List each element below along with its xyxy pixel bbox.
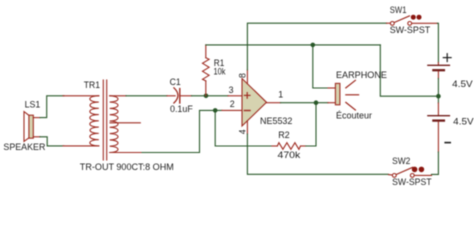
- svg-text:3: 3: [229, 85, 234, 95]
- svg-text:SW-SPST: SW-SPST: [392, 177, 432, 187]
- svg-text:470k: 470k: [278, 150, 301, 160]
- secondary top pin: [110, 95, 126, 97]
- svg-text:Écouteur: Écouteur: [336, 111, 372, 121]
- svg-text:SW-SPST: SW-SPST: [390, 25, 431, 35]
- core: [102, 80, 104, 160]
- svg-text:10k: 10k: [214, 67, 226, 77]
- primary bottom pin: [63, 145, 99, 147]
- wire battery bottom to SW2: [432, 152, 439, 174]
- wire pin2 down to R2: [215, 110, 272, 146]
- svg-text:SW2: SW2: [392, 156, 410, 166]
- svg-text:4.5V: 4.5V: [452, 79, 473, 89]
- primary winding: [90, 96, 99, 146]
- pin 4 stub: [246, 121, 248, 134]
- op-amp U1 NE5532: [222, 70, 281, 134]
- plus symbol: [244, 94, 250, 96]
- SW2 left pin stub: [389, 174, 393, 176]
- svg-text:TR1: TR1: [84, 80, 100, 90]
- battery BT1 4.5V: [428, 63, 450, 79]
- wire pin8 to top rail: [247, 23, 386, 70]
- switch SW2: [392, 167, 431, 178]
- speaker LS1: [24, 112, 40, 142]
- transformer TR1: [63, 80, 142, 160]
- svg-text:0.1uF: 0.1uF: [170, 104, 193, 114]
- wire output to earphone: [281, 102, 329, 104]
- primary top pin: [63, 95, 99, 97]
- SW1 left pin stub: [387, 22, 391, 24]
- wire R2 right up to output: [306, 103, 316, 146]
- battery BT2 4.5V: [428, 103, 450, 152]
- pin 2 stub: [222, 109, 242, 111]
- wire pin2 net from transformer bottom: [142, 110, 222, 152]
- wire pin4 to bottom rail: [247, 134, 388, 174]
- svg-text:NE5532: NE5532: [260, 116, 292, 126]
- wire SW1 to battery top: [437, 23, 440, 62]
- switch SW1: [390, 15, 437, 26]
- svg-text:4: 4: [237, 129, 247, 134]
- node junction battery mid: [436, 94, 441, 99]
- secondary center tap pin: [110, 122, 140, 124]
- svg-text:C1: C1: [170, 77, 181, 87]
- node junction rail/earphone-top: [311, 43, 316, 48]
- pin 8 stub: [246, 70, 248, 84]
- node junction R1/pin3: [204, 94, 209, 99]
- wire rail R1-top to battery mid: [206, 44, 380, 46]
- pin 1 stub: [267, 102, 281, 104]
- wire speaker top to transformer: [40, 96, 64, 118]
- wire between batteries: [437, 79, 439, 104]
- resistor R2: [272, 143, 306, 150]
- label - (BT2): [445, 142, 450, 144]
- minus symbol: [244, 110, 250, 112]
- label + (BT1): [443, 54, 451, 62]
- svg-text:EARPHONE: EARPHONE: [336, 70, 387, 80]
- svg-text:SPEAKER: SPEAKER: [3, 142, 45, 152]
- secondary bottom pin: [110, 152, 142, 154]
- svg-text:1: 1: [278, 90, 283, 100]
- node junction pin2/R2: [213, 108, 218, 113]
- pin 3 stub: [228, 95, 242, 97]
- svg-text:R2: R2: [278, 130, 290, 140]
- earphone: [328, 80, 359, 110]
- node junction output/R2: [314, 100, 319, 105]
- svg-text:SW1: SW1: [390, 5, 407, 15]
- wire earphone top drop: [313, 45, 328, 88]
- svg-text:4.5V: 4.5V: [453, 117, 474, 127]
- wire secondary top to C1: [126, 95, 167, 97]
- capacitor C1: [167, 88, 192, 103]
- resistor R1: [203, 45, 210, 96]
- svg-text:2: 2: [230, 99, 235, 109]
- svg-text:8: 8: [237, 73, 247, 78]
- wire C1 to pin3: [192, 95, 229, 97]
- wire speaker bottom to transformer: [40, 137, 64, 146]
- svg-text:TR-OUT 900CT:8 OHM: TR-OUT 900CT:8 OHM: [80, 162, 174, 172]
- svg-text:LS1: LS1: [25, 100, 41, 110]
- secondary winding: [110, 96, 118, 153]
